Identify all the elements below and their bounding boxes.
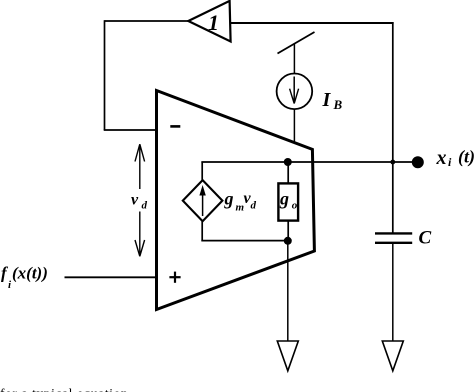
internal bottom node line	[201, 240, 288, 242]
wire right vertical lower	[392, 243, 394, 341]
svg-text:(x(t)): (x(t))	[12, 264, 48, 283]
wire right vertical upper (to capacitor)	[392, 22, 394, 233]
wire top right horizontal	[231, 22, 394, 24]
plus label (non-inverting input)	[169, 276, 180, 278]
internal top node line (to output)	[201, 161, 412, 163]
v_d up arrow	[139, 146, 141, 190]
v_d down arrow	[139, 212, 141, 256]
current source I_B circle	[277, 74, 313, 110]
output terminal dot x_i	[412, 156, 424, 168]
wire g_o top	[287, 162, 289, 183]
svg-text:1: 1	[208, 10, 219, 35]
svg-text:C: C	[419, 228, 432, 249]
current source arrow (downward)	[293, 77, 295, 102]
svg-text:d: d	[142, 200, 148, 212]
wire I_B top	[293, 44, 295, 75]
conductance g_o box	[278, 183, 298, 220]
wire I_B bottom (ends on trapezoid top edge)	[293, 109, 295, 143]
wire g_o bottom	[287, 221, 289, 241]
node dot top (junction)	[284, 158, 292, 166]
wire feedback bottom horizontal to inverting input	[104, 129, 158, 131]
svg-text:I: I	[322, 89, 332, 111]
svg-text:o: o	[292, 200, 298, 212]
diamond arrow (up)	[202, 193, 204, 216]
wire feedback top horizontal	[105, 20, 191, 22]
bottom arrow left (current sink)	[277, 341, 298, 371]
node dot bottom (junction)	[284, 237, 292, 245]
svg-text:g: g	[224, 189, 234, 209]
svg-text:(t): (t)	[458, 147, 474, 168]
minus label (inverting input)	[170, 125, 180, 128]
wire diamond top	[201, 162, 203, 182]
input wire f_i	[65, 276, 158, 278]
bottom arrow right (current sink)	[382, 341, 403, 371]
wire bottom branch to arrow	[287, 241, 289, 341]
dependent source diamond g_m v_d	[183, 180, 223, 221]
supply slash tick	[278, 32, 315, 54]
svg-text:g: g	[279, 189, 289, 209]
buffer U1 (unity-gain triangle)	[188, 1, 230, 42]
svg-text:v: v	[131, 192, 139, 209]
wire diamond bottom	[201, 221, 203, 242]
op-amp OTA trapezoid body	[157, 91, 315, 310]
svg-text:d: d	[251, 200, 257, 212]
capacitor C plates	[375, 232, 412, 234]
junction dot right	[390, 160, 395, 165]
svg-text:B: B	[333, 97, 343, 112]
svg-text:for a typical equation: for a typical equation	[0, 386, 128, 392]
svg-text:x: x	[436, 147, 447, 169]
wire feedback left vertical	[104, 20, 106, 130]
